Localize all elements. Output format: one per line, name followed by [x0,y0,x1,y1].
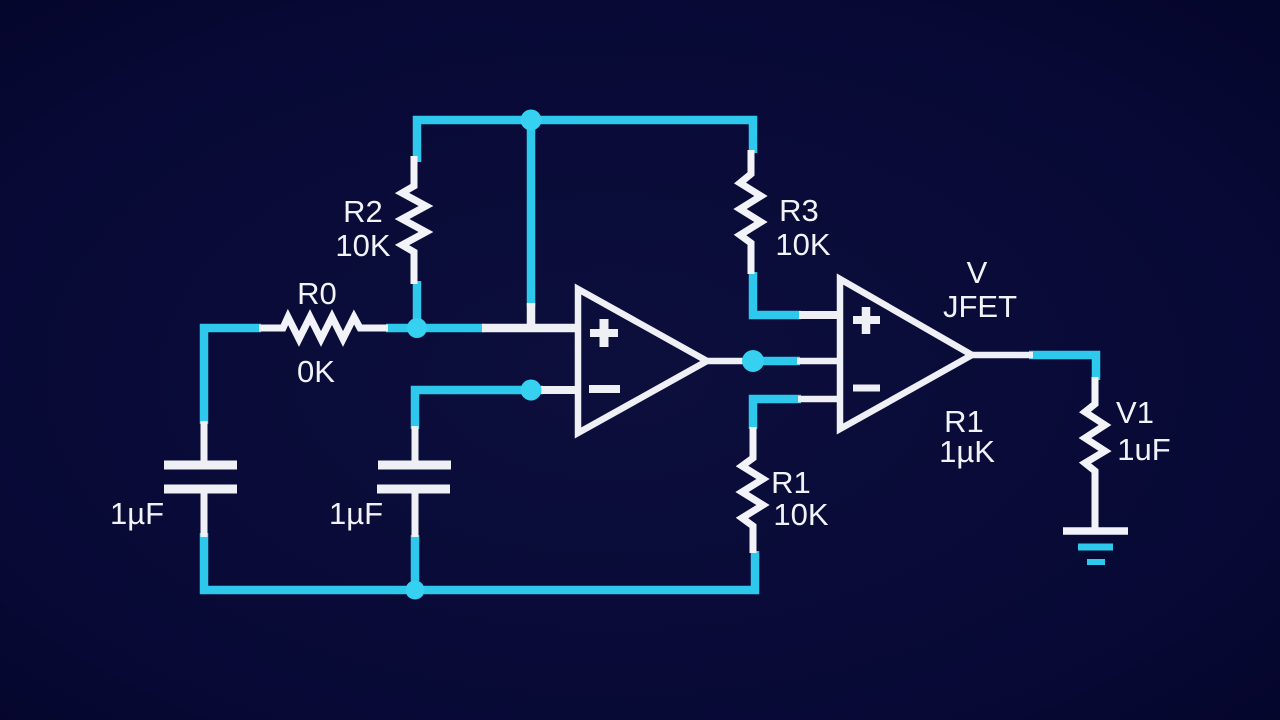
svg-text:1uF: 1uF [1117,432,1170,467]
svg-text:V1: V1 [1116,395,1154,430]
svg-text:1µF: 1µF [329,496,383,531]
svg-text:JFET: JFET [943,289,1017,324]
svg-text:10K: 10K [335,228,390,263]
svg-text:1µF: 1µF [110,496,164,531]
svg-text:R0: R0 [297,276,337,311]
svg-text:0K: 0K [297,354,335,389]
svg-text:1µK: 1µK [939,434,995,469]
svg-text:R3: R3 [779,193,819,228]
svg-text:V: V [967,255,988,290]
svg-text:R2: R2 [343,194,383,229]
svg-text:10K: 10K [773,497,828,532]
svg-text:R1: R1 [771,465,811,500]
svg-text:10K: 10K [775,227,830,262]
